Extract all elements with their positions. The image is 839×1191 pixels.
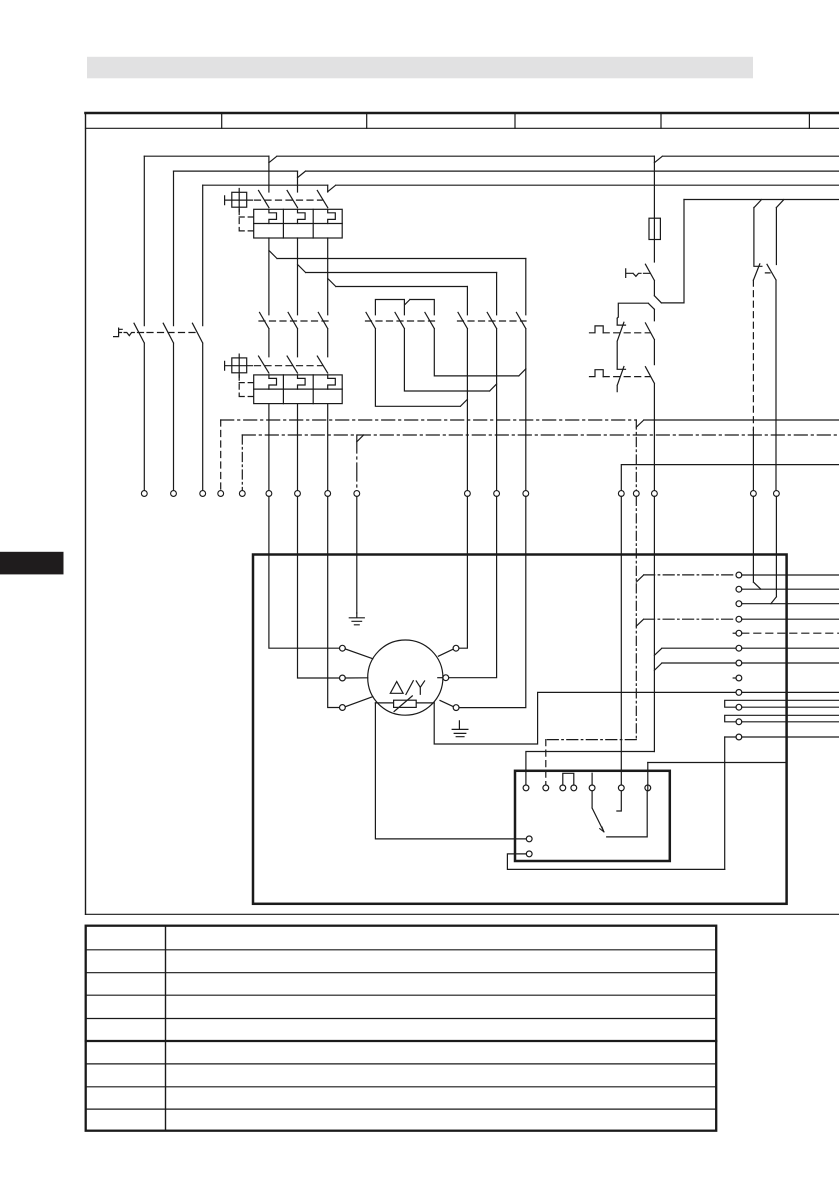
wire U1 into panel (269, 496, 340, 648)
T7 line out (742, 662, 839, 664)
wire L1 drop (143, 156, 145, 325)
bottom table outer border (86, 926, 717, 1131)
motor terminal U2 (438, 645, 459, 656)
wire K2 feed pole 1 (466, 287, 468, 315)
T5 tick (733, 632, 736, 634)
pressure switch B1 NC contact (spare) (617, 322, 625, 369)
K2 linkage (dashed) (458, 320, 527, 322)
drawing frame top (thick) (86, 112, 839, 115)
overload heater pole 3 (328, 209, 336, 223)
overload relay F2 manual actuator (225, 354, 253, 377)
control wire into panel (653, 496, 655, 751)
T9 line out (742, 691, 839, 693)
contactor K3 pole 2 (395, 312, 497, 391)
strip 7 riser (647, 763, 649, 791)
star bridge of contactor K3 (375, 300, 434, 315)
wire to strip 6 (620, 496, 622, 785)
wire L3 drop (202, 185, 204, 325)
F2 trip linkage (dashed) (239, 375, 253, 396)
control wire to strip 1 (526, 752, 655, 786)
wire PE into panel to earth (356, 496, 358, 613)
earth PE1 (349, 613, 364, 625)
terminal circles row (141, 491, 779, 497)
T10 bracket and lines out (725, 700, 839, 707)
motor thermistor lead to strip (375, 703, 526, 839)
wire S4 into panel (771, 496, 777, 603)
title bar (gray) (87, 57, 753, 79)
T12 to bottom loop (724, 763, 726, 870)
T4 line out (742, 618, 839, 620)
breaker Q1 pole 1 lead (268, 156, 270, 192)
overload heater pole 2 (298, 209, 306, 223)
bottom table thick mid line (86, 1040, 717, 1042)
strip wire left 2 (507, 854, 724, 870)
bottom table column divider (165, 926, 167, 1131)
wire F2 out pole2 (297, 404, 299, 491)
fuse F1 (649, 218, 660, 239)
wire W2 into panel (459, 496, 526, 707)
limit contact S3 NC (753, 208, 762, 281)
RAILS (221, 420, 839, 491)
drop to terminal (dash-dot) (241, 435, 243, 491)
K3 linkage (dashed) (366, 320, 435, 322)
breaker Q1 pole 1 contact (259, 191, 269, 208)
CONTACTORS (259, 238, 526, 491)
T3 line out (742, 603, 839, 605)
breaker Q1 trip linkage (dashed) (239, 210, 253, 231)
black side tab (0, 552, 64, 575)
frame left border (85, 113, 87, 914)
breaker Q1 pole 3 lead (327, 185, 329, 192)
PE branch to T4 (dash-dot) (636, 619, 736, 626)
disconnect switch Q0 pole 1 (134, 323, 144, 491)
wire Q1 out pole3 with branch to K2 (328, 238, 468, 315)
contactor K2 pole 3 (516, 312, 525, 490)
LEFTGROUP (114, 156, 203, 491)
wire S3 into panel (753, 496, 760, 589)
frame bottom border (86, 913, 839, 915)
wire F2 out pole1 (268, 404, 270, 491)
F2 heater pole 2 (298, 375, 306, 389)
overload block F2 body (254, 375, 343, 404)
motor M1 circle (368, 640, 443, 715)
contactor K3 pole 1 (366, 312, 467, 406)
header band dividers (222, 113, 810, 128)
T11 bracket and lines out (725, 715, 839, 722)
Q0 handle glyph (114, 328, 144, 337)
wire S1 to pressure bank (617, 303, 654, 325)
switch S1 actuator (626, 269, 650, 278)
breaker Q1 pole 2 contact (287, 191, 297, 208)
bottom table row lines (86, 950, 717, 1109)
T2 line out (742, 588, 839, 590)
bonding line (648, 762, 787, 764)
wire L2 drop (173, 171, 175, 326)
bus N (684, 200, 839, 208)
wire fuse to switch (653, 240, 655, 263)
T12 drop (724, 737, 726, 763)
T8 tick (733, 677, 736, 679)
contactor K1 pole 3 (318, 312, 327, 356)
strip float switch common (592, 773, 604, 832)
wire S3 down (dashed) (752, 280, 754, 491)
PE drop to earth (jog) (357, 435, 364, 491)
PE branch to T1 (dash-dot) (636, 575, 736, 582)
breaker Q1 linkage (dashed) (255, 199, 323, 201)
contactor K1 pole 2 (288, 312, 297, 356)
PE elbow to strip 2 (dash-dot then dashed) (546, 740, 637, 786)
strip float switch wire (607, 791, 648, 837)
breaker Q1 pole 3 contact (317, 191, 327, 208)
wire N drop to S1 (654, 200, 684, 303)
B2 linkage (dashed) (603, 376, 650, 378)
bus L2 (174, 171, 839, 178)
wire control feed from L1 (653, 156, 655, 218)
BUSES (144, 156, 839, 207)
control branch to T6 (654, 648, 736, 655)
overload block Q1 body (254, 209, 343, 238)
wire V2 into panel (449, 496, 497, 677)
TERMROW (141, 491, 779, 497)
pressure switch B2 actuator (590, 370, 604, 377)
contactor K2 pole 1 (458, 312, 467, 490)
overload heater pole 1 (269, 209, 277, 223)
control branch to T7 (654, 663, 736, 670)
motor terminal U1 (340, 645, 373, 658)
contactor K3 pole 3 (425, 312, 526, 376)
terminal strip box X1 (515, 771, 670, 861)
disconnect switch Q0 pole 2 (163, 323, 173, 491)
MPCB2 (225, 354, 343, 491)
Q0 linkage (dashed) (147, 332, 198, 334)
motor bottom lead to T9 (434, 692, 736, 744)
breaker Q1 pole 2 lead (297, 171, 299, 192)
BOXINNER (340, 572, 839, 869)
overload relay F2 pole 1 contact (259, 356, 269, 373)
strip terminal circles (523, 785, 651, 857)
enclosure box (panel) (253, 555, 787, 904)
K1 linkage (dashed) (259, 320, 328, 322)
pressure switch B1 actuator (590, 326, 604, 333)
T12 bracket and line out (725, 736, 839, 738)
overload relay F2 pole 2 contact (287, 356, 297, 373)
motor terminal W1 (340, 697, 373, 711)
shield rail upper (dash-dot) (221, 420, 839, 427)
wire K2 feed pole 3 (525, 259, 527, 315)
bus L3 (203, 185, 839, 192)
pressure switch B1 NO contact (645, 309, 654, 364)
control return line (621, 465, 839, 491)
motor terminal V1 (340, 675, 368, 681)
drop to terminal (dashed) (220, 420, 222, 491)
disconnect switch Q0 pole 3 (192, 323, 202, 491)
F2 heater pole 1 (269, 375, 277, 389)
earth PE2 (452, 721, 468, 737)
wire K2 feed pole 2 (496, 273, 498, 315)
B1 linkage (dashed) (603, 332, 650, 334)
CONTROL (590, 156, 777, 491)
limit contact S4 NO (765, 208, 776, 491)
T1 line out (742, 574, 839, 576)
overload relay F2 pole 3 contact (317, 356, 327, 373)
motor label delta/Y (390, 681, 424, 695)
bus L1 (144, 156, 839, 163)
motor terminal V2 (438, 675, 449, 681)
F2 linkage (dashed) (255, 365, 323, 367)
strip contact stub (617, 791, 621, 811)
T5 line out (dashed) (742, 632, 839, 634)
motor terminal W2 (440, 700, 459, 710)
wire V1 into panel (298, 496, 340, 678)
contactor K1 pole 1 (260, 312, 269, 356)
wire F2 out pole3 (327, 404, 329, 491)
motor thermistor (394, 696, 417, 712)
contactor K2 pole 2 (487, 312, 496, 490)
frame header band bottom line (86, 127, 839, 129)
wire U2 into panel (459, 496, 468, 648)
PE rail vertical (dash-dot) (635, 420, 637, 491)
motor bottom bar (375, 702, 434, 704)
PE wire into panel (dash-dot) (635, 496, 637, 739)
T6 line out (742, 647, 839, 649)
MPCB1 (225, 156, 343, 238)
wire Q1 out pole2 with branch to K2 (298, 238, 497, 315)
switch S1 contact (645, 264, 654, 296)
wire W1 into panel (328, 496, 340, 707)
strip jumper 3-4 (563, 773, 574, 785)
F2 heater pole 3 (328, 375, 336, 389)
breaker Q1 manual actuator (225, 189, 253, 212)
shield rail lower (dash-dot) (242, 434, 839, 436)
pressure switch B2 NC contact (spare) (617, 367, 625, 392)
panel terminal circles T1-T12 (736, 572, 742, 740)
pressure switch B2 NO contact (645, 367, 654, 491)
wire Q1 out pole1 with branch to K2 (269, 238, 526, 315)
